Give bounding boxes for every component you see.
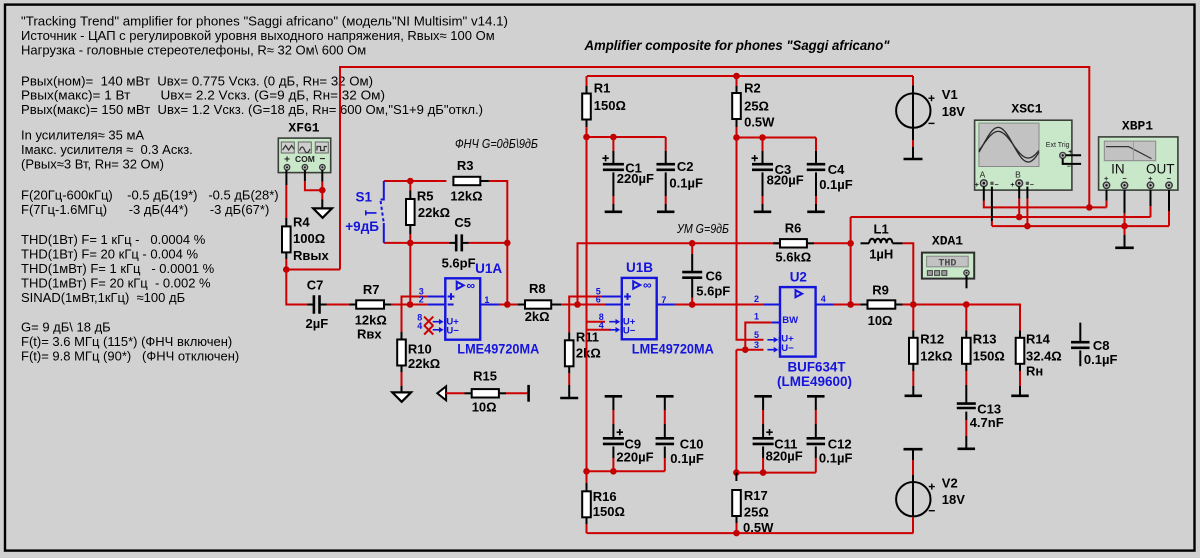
wire supply rail V+	[587, 75, 913, 77]
resistor R10 body	[397, 340, 406, 366]
svg-text:Pвых(макс)= 1 Вт Uвх= 2: Pвых(макс)= 1 Вт Uвх= 2.2 Vскз. (G=9 дБ,…	[21, 88, 385, 103]
wire arrow to R15	[446, 392, 464, 394]
wire XBP1 IN plus stub	[1106, 190, 1108, 201]
svg-text:C2: C2	[677, 159, 694, 174]
terminal bar C11 top bar	[754, 395, 772, 398]
resistor R13 body	[962, 338, 971, 364]
svg-text:R1: R1	[594, 81, 611, 96]
capacitor C8	[1079, 323, 1081, 343]
wire V+ filter rail 1	[587, 136, 666, 138]
svg-text:5.6pF: 5.6pF	[442, 256, 476, 271]
switch S1	[381, 181, 384, 200]
svg-text:Rвх: Rвх	[357, 327, 382, 342]
wire C12 bottom lead	[815, 447, 817, 459]
resistor R17 body	[732, 490, 741, 516]
node U1A in	[407, 301, 414, 308]
svg-text:V1: V1	[942, 87, 958, 102]
node C6 top	[689, 240, 696, 247]
wire U1B power rail vertical	[586, 137, 588, 471]
svg-text:F(t)= 3.6 МГц (115*) (ФНЧ вклю: F(t)= 3.6 МГц (115*) (ФНЧ включен)	[21, 334, 232, 349]
ground GND below R11	[560, 397, 578, 400]
wire C13 bottom lead	[965, 412, 967, 420]
capacitor C6 5.6pF plates	[682, 272, 702, 278]
node U2 output	[847, 301, 854, 308]
svg-text:6: 6	[596, 295, 601, 305]
svg-text:32.4Ω: 32.4Ω	[1026, 349, 1062, 364]
svg-text:S1: S1	[356, 189, 373, 204]
svg-text:In усилителя≈ 35 мА: In усилителя≈ 35 мА	[21, 128, 144, 143]
svg-text:820µF: 820µF	[767, 173, 804, 188]
wire R7 to U1A inverting input	[384, 304, 391, 306]
wire XBP1 OUT plus stub	[1150, 190, 1152, 206]
wire R17 bottom lead	[736, 516, 738, 523]
svg-text:R17: R17	[744, 488, 768, 503]
wire C9 rail	[587, 470, 665, 472]
svg-text:10Ω: 10Ω	[868, 313, 893, 328]
svg-text:COM: COM	[295, 154, 315, 164]
node C11 rail junctions	[733, 469, 740, 476]
svg-text:7: 7	[661, 295, 666, 305]
wire scope B minus stub	[1026, 187, 1028, 199]
node R5 bottom	[407, 240, 414, 247]
svg-text:R15: R15	[473, 368, 497, 383]
ground GND below C13	[958, 447, 976, 450]
wire R1 bottom lead	[586, 120, 588, 128]
wire U1B output	[675, 304, 764, 306]
svg-text:3: 3	[754, 340, 759, 350]
svg-text:A: A	[980, 170, 986, 180]
terminal bar R15	[527, 385, 530, 402]
wire C10 top lead	[664, 396, 666, 410]
svg-text:5: 5	[754, 330, 759, 340]
svg-text:Amplifier composite for phones: Amplifier composite for phones "Saggi af…	[584, 38, 891, 53]
node XFG1 COM-minus	[319, 187, 326, 194]
connector arrow R15	[437, 386, 446, 400]
svg-text:4: 4	[417, 321, 422, 331]
svg-text:ФНЧ G=0дБ\9дБ: ФНЧ G=0дБ\9дБ	[455, 137, 538, 151]
wire C1 top lead	[612, 137, 614, 151]
node load	[910, 301, 917, 308]
svg-text:Нагрузка - головные стереотеле: Нагрузка - головные стереотелефоны, R≈ 3…	[21, 43, 366, 58]
svg-text:150Ω: 150Ω	[593, 504, 625, 519]
wire R10 bottom lead	[401, 366, 403, 373]
svg-text:C5: C5	[454, 215, 471, 230]
wire signal top rail	[340, 67, 1089, 270]
svg-text:5.6kΩ: 5.6kΩ	[775, 250, 811, 265]
svg-text:R8: R8	[529, 281, 546, 296]
op-amp U2 BUF634T	[763, 287, 833, 357]
wire R1 top lead	[586, 76, 588, 86]
wire R16 top lead	[586, 471, 588, 483]
voltage source V1	[912, 85, 914, 140]
svg-text:18V: 18V	[942, 492, 965, 507]
node R5 top	[407, 178, 414, 185]
svg-text:C6: C6	[706, 269, 723, 284]
svg-text:220µF: 220µF	[617, 171, 654, 186]
resistor R15 body	[472, 389, 499, 397]
wire R5 top lead	[409, 181, 411, 191]
polarity plus C1	[602, 155, 608, 161]
svg-text:−: −	[995, 182, 999, 189]
svg-text:0.1µF: 0.1µF	[819, 450, 853, 465]
wire U1A output	[499, 304, 518, 306]
capacitor C1 220uF plates	[603, 164, 624, 170]
svg-text:Ext Trig: Ext Trig	[1046, 142, 1070, 149]
wire U2 negative supply vertical	[736, 350, 745, 473]
resistor R2 body	[732, 93, 741, 119]
wire U2 positive supply vertical	[737, 138, 764, 340]
wire L1 right lead	[892, 242, 902, 244]
node C9 rail junctions	[583, 468, 590, 475]
svg-text:+: +	[1010, 182, 1014, 189]
svg-text:Источник - ЦАП с регулировкой: Источник - ЦАП с регулировкой уровня вых…	[21, 28, 495, 43]
resistor R12 body	[909, 338, 918, 364]
wire R9 right lead	[895, 304, 902, 306]
node row3 junctions	[1024, 223, 1031, 230]
wire U1B pin4 stub	[587, 329, 612, 331]
wire C12 top lead	[815, 396, 817, 410]
terminal bar C9 top bar	[605, 395, 623, 398]
wire feedback node down	[409, 243, 411, 305]
ground GND above V2	[904, 448, 923, 451]
wire scope B plus stub	[1018, 187, 1020, 199]
capacitor C8 plates plates	[1071, 342, 1090, 348]
svg-text:THD(1Вт) F= 1 кГц - 0.0004 %: THD(1Вт) F= 1 кГц - 0.0004 %	[21, 232, 206, 247]
svg-text:F(t)= 9.8 МГц (90*) (ФНЧ отк: F(t)= 9.8 МГц (90*) (ФНЧ отключен)	[21, 349, 239, 364]
wire C10 bottom lead	[664, 447, 666, 459]
wire V1 bottom lead	[912, 140, 914, 147]
capacitor C9 220uF plates	[603, 438, 624, 444]
svg-text:4: 4	[821, 294, 826, 304]
wire C11 top lead	[762, 396, 764, 410]
instrument XSC1	[975, 120, 1072, 190]
svg-text:R9: R9	[872, 283, 889, 298]
wire to ground	[321, 190, 323, 199]
wire XDA1 probe	[966, 276, 968, 289]
capacitor C2 0.1uF plates	[656, 164, 675, 170]
svg-text:R12: R12	[920, 331, 944, 346]
wire U1A noninverting branch	[402, 297, 428, 340]
ground GND below XFG1	[313, 208, 332, 217]
ground GND below XBP1	[1115, 247, 1134, 250]
svg-text:2kΩ: 2kΩ	[525, 309, 550, 324]
wire V1 top lead	[912, 76, 914, 85]
capacitor C7 2uF plates	[314, 295, 320, 314]
wire C1 bottom lead	[612, 172, 614, 196]
wire scope A minus	[991, 187, 993, 221]
wire V+ filter rail 2	[737, 137, 817, 139]
svg-text:∞: ∞	[643, 278, 652, 292]
capacitor C5 5.6pF plates	[456, 234, 462, 251]
wire feedback bottom rail	[384, 242, 450, 244]
ground GND below C4	[807, 211, 825, 214]
wire C9 bottom lead	[612, 447, 614, 459]
node R17 bottom	[733, 530, 740, 537]
svg-text:4.7nF: 4.7nF	[970, 415, 1004, 430]
wire U2 BW pin	[745, 323, 771, 350]
svg-text:BUF634T: BUF634T	[788, 359, 847, 374]
polarity plus C9	[617, 429, 623, 435]
svg-text:THD(1Вт) F= 20 кГц - 0.004 %: THD(1Вт) F= 20 кГц - 0.004 %	[21, 247, 198, 262]
resistor R14 body	[1016, 338, 1025, 364]
node U2 bw-uminus	[742, 346, 749, 353]
svg-text:12kΩ: 12kΩ	[355, 313, 387, 328]
wire U2 Uminus stub	[745, 349, 763, 351]
wire bottom rail	[587, 532, 914, 534]
wire C11 bottom lead	[762, 447, 764, 459]
svg-text:U−: U−	[446, 326, 459, 337]
wire R6 right lead	[807, 242, 814, 244]
wire C4 bottom lead	[815, 172, 817, 196]
node feedback right	[504, 240, 511, 247]
svg-text:R14: R14	[1026, 331, 1051, 346]
wire C2 bottom lead	[665, 172, 667, 196]
wire feedback top rail	[384, 180, 447, 182]
resistor R7 body	[356, 300, 384, 308]
svg-text:УМ G=9дБ: УМ G=9дБ	[676, 222, 729, 236]
node output feedback	[847, 240, 854, 247]
op-amp U1A	[428, 278, 499, 339]
svg-text:F(20Гц-600кГц) -0.5 дБ(19*): F(20Гц-600кГц) -0.5 дБ(19*) -0.5 дБ(28*)	[21, 188, 279, 203]
capacitor C11 820uF plates	[753, 438, 774, 444]
resistor R1 body	[582, 94, 591, 120]
node scope B plus	[1016, 214, 1023, 221]
svg-text:R5: R5	[417, 188, 434, 203]
svg-text:5.6pF: 5.6pF	[696, 283, 730, 298]
svg-text:Iмакс. усилителя ≈ 0.3 Aскз.: Iмакс. усилителя ≈ 0.3 Aскз.	[21, 142, 193, 157]
instrument XDA1	[922, 253, 974, 279]
wire XBP1 ground	[1124, 226, 1126, 235]
wire R8 to U1B	[551, 304, 561, 306]
wire R12 top lead	[912, 305, 914, 331]
wire scope A row	[983, 187, 985, 201]
instrument XBP1	[1099, 137, 1178, 190]
svg-text:150Ω: 150Ω	[973, 349, 1005, 364]
svg-text:1: 1	[754, 311, 759, 321]
svg-text:−: −	[1030, 182, 1034, 189]
polarity plus C3	[752, 155, 758, 161]
wire R4 bottom lead	[285, 252, 287, 259]
wire C3 bottom lead	[762, 172, 764, 196]
svg-text:Rн: Rн	[1026, 363, 1043, 378]
wire R5 bottom lead	[409, 225, 411, 234]
op-amp U1B	[602, 278, 675, 339]
wire U1B pin8 stub	[587, 321, 606, 323]
svg-text:XBP1: XBP1	[1122, 119, 1153, 134]
svg-text:R2: R2	[744, 81, 761, 96]
inductor L1	[869, 239, 892, 244]
svg-text:1µH: 1µH	[869, 247, 893, 262]
wire C9 top lead	[612, 396, 614, 410]
resistor R16 body	[582, 491, 591, 517]
svg-text:2kΩ: 2kΩ	[576, 345, 601, 360]
ground GND below R12	[905, 394, 923, 397]
svg-text:L1: L1	[874, 222, 889, 237]
svg-text:(LME49600): (LME49600)	[777, 374, 852, 389]
svg-text:25Ω: 25Ω	[744, 505, 769, 520]
wire C4 top lead	[815, 138, 817, 152]
svg-text:R13: R13	[973, 331, 997, 346]
wire C7 to R7	[320, 304, 327, 306]
svg-text:"Tracking Trend" amplifier for: "Tracking Trend" amplifier for phones "S…	[21, 14, 508, 29]
svg-text:U2: U2	[790, 269, 807, 284]
svg-text:C4: C4	[828, 162, 845, 177]
svg-text:LME49720MA: LME49720MA	[457, 341, 539, 356]
wire L1 left lead	[861, 242, 870, 244]
capacitor C13 4.7nF plates	[957, 404, 976, 408]
svg-text:820µF: 820µF	[766, 448, 803, 463]
svg-text:0.1µF: 0.1µF	[1084, 352, 1118, 367]
svg-text:C10: C10	[680, 437, 704, 452]
capacitor C3 820uF plates	[752, 164, 773, 170]
wire R4 node to left rail	[286, 269, 340, 271]
node R1-C1 rail	[583, 134, 590, 141]
resistor R8 body	[525, 300, 551, 308]
svg-text:(Pвых≈3 Вт, Rн= 32 Ом): (Pвых≈3 Вт, Rн= 32 Ом)	[21, 157, 164, 172]
svg-text:22kΩ: 22kΩ	[418, 205, 450, 220]
svg-text:XDA1: XDA1	[932, 234, 963, 249]
svg-text:F(7Гц-1.6МГц) -3 дБ(44*): F(7Гц-1.6МГц) -3 дБ(44*) -3 дБ(67*)	[21, 202, 269, 217]
svg-text:22kΩ: 22kΩ	[408, 356, 440, 371]
svg-text:12kΩ: 12kΩ	[450, 188, 482, 203]
U1A power pins no-connect	[433, 321, 440, 323]
svg-text:XSC1: XSC1	[1011, 101, 1042, 116]
svg-text:2µF: 2µF	[306, 316, 329, 331]
svg-text:0.1µF: 0.1µF	[669, 175, 703, 190]
resistor R9 body	[868, 300, 896, 308]
wire R17 top lead	[735, 473, 737, 481]
svg-text:R3: R3	[457, 158, 474, 173]
svg-text:0.5W: 0.5W	[743, 520, 774, 535]
wire R4 to C7	[286, 270, 307, 305]
svg-text:R4: R4	[293, 214, 310, 229]
svg-text:0.1µF: 0.1µF	[819, 177, 853, 192]
node U1B output	[689, 301, 696, 308]
node rail2 junctions	[733, 134, 740, 141]
resistor R6 body	[780, 239, 807, 247]
svg-text:150Ω: 150Ω	[594, 98, 626, 113]
capacitor C4 0.1uF plates	[807, 164, 826, 170]
svg-text:+: +	[975, 182, 979, 189]
wire R14 bottom lead	[1019, 364, 1021, 371]
wire C2 top lead	[665, 137, 667, 151]
wire R14 top lead	[1019, 331, 1021, 338]
wire output node vertical	[850, 217, 852, 305]
wire R11 bottom lead	[568, 366, 570, 373]
wire XBP1 OUT minus stub	[1168, 190, 1170, 211]
svg-text:THD: THD	[938, 258, 956, 269]
svg-text:U1B: U1B	[626, 260, 653, 275]
svg-text:C7: C7	[307, 278, 324, 293]
svg-text:G= 9 дБ\ 18 дБ: G= 9 дБ\ 18 дБ	[21, 320, 111, 335]
svg-text:∞: ∞	[467, 278, 476, 292]
svg-text:100Ω: 100Ω	[293, 231, 325, 246]
wire R13 to C13	[965, 364, 967, 371]
svg-text:V2: V2	[942, 475, 958, 490]
svg-text:220µF: 220µF	[616, 449, 653, 464]
svg-text:U−: U−	[623, 326, 636, 337]
node V+ rail R2	[733, 73, 740, 80]
svg-text:18V: 18V	[942, 104, 965, 119]
ground GND below C1	[605, 211, 623, 214]
wire R12 bottom lead	[912, 364, 914, 371]
svg-text:B: B	[1015, 170, 1021, 180]
wire R16 bottom lead	[586, 517, 588, 524]
svg-text:10Ω: 10Ω	[472, 399, 497, 414]
wire XBP1 IN minus stub	[1124, 190, 1126, 213]
ground GND below R14	[1011, 394, 1029, 397]
svg-text:25Ω: 25Ω	[744, 99, 769, 114]
svg-text:0.5W: 0.5W	[744, 114, 775, 129]
svg-text:R6: R6	[785, 221, 802, 236]
node U1A output	[504, 301, 511, 308]
polarity plus C11	[766, 429, 772, 435]
wire R13 top lead	[965, 305, 967, 331]
wire C6 top lead	[691, 243, 693, 254]
node R4 output	[283, 266, 290, 273]
wire R15 right lead	[499, 392, 506, 394]
svg-text:4: 4	[599, 320, 604, 330]
svg-text:THD(1мВт) F= 1 кГц - 0.0001: THD(1мВт) F= 1 кГц - 0.0001 %	[21, 261, 215, 276]
wire ext trig stubs	[1063, 155, 1081, 164]
resistor R5 body	[406, 199, 415, 225]
svg-text:Rвых: Rвых	[293, 248, 329, 263]
resistor R11 body	[565, 340, 574, 366]
node U1B inverting	[574, 301, 581, 308]
svg-text:0.1µF: 0.1µF	[670, 451, 704, 466]
capacitor C10 0.1uF plates	[656, 438, 675, 444]
ground GND below C2	[657, 211, 675, 214]
svg-text:Pвых(макс)= 150 мВт Uвх= 1.2: Pвых(макс)= 150 мВт Uвх= 1.2 Vскз. (G=18…	[21, 102, 483, 117]
svg-text:U−: U−	[781, 343, 794, 354]
svg-text:2: 2	[419, 295, 424, 305]
wire R2 bottom lead	[736, 119, 738, 127]
resistor R4 body	[282, 226, 291, 252]
svg-text:1: 1	[484, 295, 489, 305]
voltage source V2	[912, 449, 914, 460]
wire U2 out to R9	[834, 304, 861, 306]
wire UM feedback rail	[578, 243, 781, 304]
svg-text:BW: BW	[782, 315, 798, 326]
svg-text:2: 2	[754, 294, 759, 304]
svg-text:THD(1мВт) F= 20 кГц - 0.002 %: THD(1мВт) F= 20 кГц - 0.002 %	[21, 276, 211, 291]
resistor R3 body	[453, 177, 480, 185]
ground GND below R10	[392, 392, 411, 401]
wire R3 right lead	[480, 180, 489, 182]
svg-text:U1A: U1A	[475, 261, 502, 276]
wire C5 right lead	[462, 242, 469, 244]
wire XFG1 minus	[321, 170, 323, 182]
wire C3 top lead	[762, 138, 764, 152]
wire C6 bottom lead	[691, 278, 693, 298]
wire U1B noninverting branch	[569, 297, 605, 333]
svg-text:C8: C8	[1093, 338, 1110, 353]
wire scope B row	[851, 216, 1151, 218]
wire XFG1 COM	[304, 170, 306, 181]
svg-text:R16: R16	[593, 489, 617, 504]
svg-text:12kΩ: 12kΩ	[920, 349, 952, 364]
node signal to bode	[1086, 204, 1093, 211]
wire C11 rail	[736, 472, 815, 474]
ground GND below C3	[754, 211, 772, 214]
wire XFG1 plus to R4	[285, 170, 287, 185]
capacitor C12 0.1uF plates	[807, 438, 826, 444]
svg-text:Pвых(ном)= 140 мВт Uвх= 0.77: Pвых(ном)= 140 мВт Uвх= 0.775 Vскз. (0 д…	[21, 74, 373, 89]
wire V2 bottom lead	[912, 517, 914, 533]
wire ground row 3	[992, 225, 1169, 227]
svg-text:SINAD(1мВт,1кГц) ≈100 дБ: SINAD(1мВт,1кГц) ≈100 дБ	[21, 290, 185, 305]
svg-text:LME49720MA: LME49720MA	[632, 341, 714, 356]
